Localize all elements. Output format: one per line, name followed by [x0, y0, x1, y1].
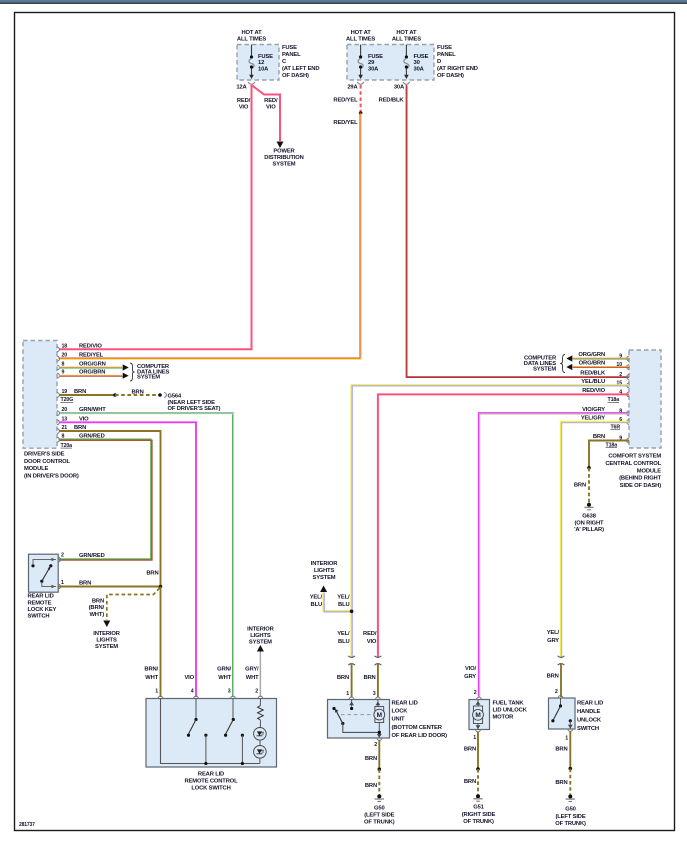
svg-text:POWER: POWER [273, 149, 295, 155]
svg-text:30A: 30A [394, 85, 405, 91]
lock unit internal wire to pin 2 [343, 724, 380, 733]
svg-text:BLU: BLU [311, 602, 322, 608]
svg-text:LOCK: LOCK [392, 709, 409, 715]
svg-text:LIGHTS: LIGHTS [250, 633, 271, 639]
arrow to interior lights system (middle) [320, 586, 327, 593]
svg-text:RED/YEL: RED/YEL [79, 353, 104, 359]
svg-text:(LEFT SIDE: (LEFT SIDE [555, 814, 585, 820]
svg-text:20: 20 [62, 407, 68, 413]
svg-text:2: 2 [474, 690, 477, 696]
svg-text:ORG/GRN: ORG/GRN [79, 362, 106, 368]
svg-text:1: 1 [565, 736, 568, 742]
wire RED/BLK from fuse 30 to comfort module pin 2 [406, 85, 629, 377]
terminal 29A connector [357, 82, 364, 84]
svg-text:3: 3 [373, 691, 376, 697]
wire RED/YEL from splice to driver door module pin 20 [59, 113, 361, 359]
svg-text:BRN: BRN [547, 674, 559, 680]
svg-text:30A: 30A [414, 66, 425, 72]
svg-text:ALL TIMES: ALL TIMES [346, 37, 375, 43]
svg-text:OF TRUNK): OF TRUNK) [364, 820, 395, 826]
lock unit pin 1 [349, 697, 354, 699]
svg-text:2: 2 [619, 372, 622, 378]
splice node BRN [113, 393, 117, 397]
svg-text:T20G: T20G [61, 397, 74, 403]
svg-text:WHT): WHT) [89, 612, 104, 618]
wire BRN/WHT from splice down to lock switch pin 1 [160, 587, 162, 698]
splice node YEL/BLU interior lights [350, 610, 354, 614]
svg-text:ALL TIMES: ALL TIMES [237, 37, 266, 43]
arrow ORG/GRN data line (left-pointing) [566, 355, 572, 361]
svg-text:12: 12 [258, 60, 264, 66]
terminal 12A connector [248, 82, 255, 84]
svg-text:10A: 10A [258, 66, 269, 72]
svg-text:BRN/: BRN/ [144, 667, 158, 673]
svg-text:VIO: VIO [367, 639, 377, 645]
svg-text:G638: G638 [582, 513, 597, 519]
junction node on rail (switch 1) [204, 762, 207, 765]
svg-text:HANDLE: HANDLE [577, 709, 601, 715]
svg-text:SWITCH: SWITCH [28, 614, 50, 620]
svg-text:G50: G50 [374, 805, 385, 811]
svg-text:GRY: GRY [547, 638, 559, 644]
pin 21 BRN of driver door module [57, 429, 59, 434]
wire GRN/RED from pin 8 to key switch pin 2 [58, 439, 151, 559]
inline connector YEL/BLU to BRN [348, 656, 355, 658]
svg-text:BLU: BLU [338, 602, 349, 608]
svg-text:WHT: WHT [218, 675, 231, 681]
svg-text:OF DRIVER'S SEAT): OF DRIVER'S SEAT) [168, 406, 221, 412]
fuse panel D box [347, 45, 434, 81]
svg-text:8: 8 [62, 362, 65, 368]
svg-text:BRN: BRN [593, 434, 605, 440]
wire ORG/BRN from comfort module to data lines [573, 366, 630, 368]
svg-text:G51: G51 [473, 804, 484, 810]
lock switch illumination resistor [259, 699, 261, 706]
arrow to interior lights system (left) [103, 621, 110, 628]
svg-text:ORG/BRN: ORG/BRN [79, 370, 105, 376]
wire BRN dashed to ground G638 [588, 468, 590, 503]
splice node BRN at key switch output [159, 585, 163, 589]
pin 15 YEL/BLU of comfort module [627, 383, 629, 388]
lock switch LED 1 [254, 728, 267, 741]
svg-text:REAR LID: REAR LID [577, 700, 603, 706]
pin 8 ORG/GRN of driver door module [57, 365, 59, 370]
wire BRN from key switch pin 1 to splice [59, 586, 161, 588]
svg-text:ALL TIMES: ALL TIMES [392, 37, 421, 43]
svg-text:REAR LID: REAR LID [392, 701, 418, 707]
wire ORG/GRN from comfort module to data lines [573, 358, 630, 360]
svg-text:1: 1 [346, 691, 349, 697]
svg-text:HOT AT: HOT AT [241, 30, 262, 36]
ground G638 [587, 503, 591, 507]
svg-text:RED/: RED/ [363, 631, 377, 637]
key switch blade [42, 567, 50, 581]
arrow ORG/BRN data line [123, 373, 129, 379]
lock switch switch 2 (pin 3) [232, 699, 234, 719]
wire BRN dashed to ground G51 [477, 769, 479, 794]
svg-text:SIDE OF DASH): SIDE OF DASH) [620, 483, 661, 489]
comfort system central control module box [629, 350, 661, 448]
wire VIO from pin 13 to lock switch pin 4 [59, 422, 196, 697]
svg-text:T20a: T20a [61, 443, 73, 449]
svg-text:PANEL: PANEL [437, 52, 456, 58]
svg-text:BRN: BRN [363, 675, 375, 681]
svg-text:SYSTEM: SYSTEM [137, 375, 160, 381]
svg-text:MODULE: MODULE [637, 468, 662, 474]
svg-text:HOT AT: HOT AT [351, 30, 372, 36]
svg-text:2: 2 [555, 689, 558, 695]
svg-text:BRN: BRN [92, 598, 104, 604]
svg-text:SYSTEM: SYSTEM [313, 575, 336, 581]
wire BRN from pin 19 to splice [59, 394, 115, 396]
pin 9 BRN of comfort module [627, 438, 629, 443]
svg-text:3: 3 [228, 689, 231, 695]
splice node below handle switch [569, 767, 573, 771]
rear lid remote control lock switch box [146, 699, 277, 768]
arrow to power distribution system [277, 142, 284, 149]
svg-text:MODULE: MODULE [24, 466, 49, 472]
svg-text:SYSTEM: SYSTEM [95, 644, 118, 650]
svg-text:VIO: VIO [266, 104, 276, 110]
lock switch internal rail from pin 1 [161, 699, 260, 764]
svg-text:RED/: RED/ [264, 98, 278, 104]
pin 8 GRN/RED of driver door module [57, 437, 59, 442]
pin 9 ORG/BRN of driver door module [57, 373, 59, 378]
wire YEL/BLU branch to interior lights [323, 592, 351, 611]
splice node below fuel motor [476, 767, 480, 771]
splice node below lock unit [378, 768, 382, 772]
rear lid lock unit box [328, 700, 390, 739]
pin 4 RED/VIO of comfort module [627, 392, 629, 397]
pin 20 GRN/WHT of driver door module [57, 411, 59, 416]
wire RED/VIO branch to power distribution [252, 85, 281, 141]
key switch internal contacts [33, 560, 56, 565]
svg-text:4: 4 [191, 689, 194, 695]
svg-text:DISTRIBUTION: DISTRIBUTION [264, 155, 303, 161]
ground G50 (left side of trunk, right) [568, 795, 572, 799]
svg-text:'A' PILLAR): 'A' PILLAR) [574, 527, 604, 533]
svg-text:LIGHTS: LIGHTS [96, 638, 117, 644]
svg-text:LID UNLOCK: LID UNLOCK [493, 707, 528, 713]
svg-text:RED/: RED/ [237, 98, 251, 104]
key switch pin 2 [58, 557, 60, 562]
fuel motor pin 2 [477, 697, 482, 699]
svg-text:OF DASH): OF DASH) [282, 73, 309, 79]
svg-text:BRN: BRN [365, 756, 377, 762]
splice node on RED/YEL [359, 111, 363, 115]
splice node BRN at A pillar [587, 466, 591, 470]
svg-text:REAR LID: REAR LID [198, 772, 224, 778]
pin 10 ORG/BRN of comfort module [627, 365, 629, 370]
svg-text:RED/YEL: RED/YEL [333, 120, 358, 126]
svg-text:VIO/GRY: VIO/GRY [582, 407, 605, 413]
pin 8 VIO/GRY of comfort module [627, 411, 629, 416]
svg-text:RED/VIO: RED/VIO [582, 388, 605, 394]
svg-text:VIO: VIO [184, 675, 194, 681]
wire BRN from handle switch pin 1 [569, 731, 571, 767]
wire BRN dashed to ground G564 [115, 394, 160, 396]
svg-text:20: 20 [62, 353, 68, 359]
svg-text:29: 29 [368, 60, 375, 66]
svg-text:(RIGHT SIDE: (RIGHT SIDE [462, 812, 496, 818]
fuel motor M symbol [473, 706, 482, 724]
lock switch pin 2 [258, 696, 263, 698]
rear lid handle unlock switch box [549, 698, 576, 729]
svg-text:T18a: T18a [608, 397, 620, 403]
wire BRN into lock unit pin 3 [377, 664, 379, 698]
wire RED/YEL dashed segment from fuse 29 [360, 85, 362, 112]
svg-text:1: 1 [61, 580, 64, 586]
svg-text:YEL/BLU: YEL/BLU [581, 379, 605, 385]
wire BRN into handle switch pin 2 [560, 664, 562, 698]
fuse 29 symbol [360, 45, 362, 57]
ground G51 (right side of trunk) [476, 794, 480, 798]
svg-text:SYSTEM: SYSTEM [249, 640, 272, 646]
lock unit motor M [375, 707, 384, 723]
driver side door control module box [23, 341, 57, 449]
fuel tank lid unlock motor box [469, 700, 490, 730]
wire RED/VIO from comfort module pin 4 [378, 394, 629, 657]
svg-text:DRIVER'S SIDE: DRIVER'S SIDE [24, 452, 65, 458]
svg-text:LOCK SWITCH: LOCK SWITCH [191, 786, 230, 792]
svg-text:RED/BLK: RED/BLK [580, 371, 606, 377]
svg-text:BRN: BRN [337, 675, 349, 681]
svg-text:G50: G50 [565, 806, 576, 812]
svg-text:T6R: T6R [610, 425, 620, 431]
svg-text:RED/VIO: RED/VIO [79, 343, 102, 349]
pin 6 YEL/GRY of comfort module [627, 420, 629, 425]
svg-text:(BRN/: (BRN/ [89, 605, 105, 611]
svg-text:2: 2 [374, 742, 377, 748]
svg-text:BRN: BRN [574, 483, 586, 489]
svg-text:(BOTTOM CENTER: (BOTTOM CENTER [392, 725, 443, 731]
wire ORG/BRN to computer data lines [59, 375, 122, 377]
wire BRN dashed to ground G50 (trunk left) [378, 769, 380, 794]
svg-text:GRY/: GRY/ [245, 667, 259, 673]
svg-text:WHT: WHT [246, 675, 259, 681]
inline connector YEL/GRY to BRN [558, 656, 565, 658]
svg-text:RED/BLK: RED/BLK [379, 98, 405, 104]
lock switch switch 1 (pin 4) [195, 699, 197, 719]
ground eyelet node G564 [158, 393, 162, 397]
svg-text:YEL/GRY: YEL/GRY [581, 416, 605, 422]
svg-text:INTERIOR: INTERIOR [247, 627, 274, 633]
svg-text:BRN: BRN [79, 580, 91, 586]
wire BRN into lock unit pin 1 [351, 664, 353, 698]
svg-text:LOCK KEY: LOCK KEY [28, 607, 57, 613]
svg-text:YEL/: YEL/ [337, 594, 350, 600]
svg-text:MOTOR: MOTOR [493, 714, 515, 720]
svg-text:9: 9 [62, 370, 65, 376]
top window bar [0, 0, 687, 3]
svg-text:1: 1 [155, 689, 158, 695]
svg-text:REAR LID: REAR LID [28, 594, 54, 600]
brace computer data lines right [560, 355, 565, 373]
wire BRN from fuel motor pin 1 [477, 732, 479, 768]
wire BRN from comfort module pin 9 to splice [589, 441, 629, 468]
svg-text:281737: 281737 [19, 822, 35, 828]
svg-text:GRN/: GRN/ [217, 667, 231, 673]
svg-text:RED/YEL: RED/YEL [333, 98, 358, 104]
wire BRN from lock unit pin 2 [378, 740, 380, 768]
wire ORG/GRN to computer data lines [59, 367, 122, 369]
svg-text:VIO: VIO [239, 104, 249, 110]
svg-text:BRN: BRN [555, 747, 567, 753]
svg-text:YEL/: YEL/ [337, 631, 350, 637]
arrow ORG/BRN data line (left-pointing) [566, 364, 572, 370]
fuel motor pin 1 [476, 730, 481, 732]
svg-text:(IN DRIVER'S DOOR): (IN DRIVER'S DOOR) [24, 473, 79, 479]
svg-text:M: M [475, 712, 480, 719]
svg-text:LIGHTS: LIGHTS [314, 568, 335, 574]
svg-text:GRY: GRY [464, 674, 476, 680]
svg-text:BRN: BRN [464, 747, 476, 753]
svg-text:OF TRUNK): OF TRUNK) [555, 821, 586, 827]
fuse 30 symbol [405, 45, 407, 57]
svg-text:PANEL: PANEL [282, 52, 301, 58]
svg-text:FUSE: FUSE [437, 45, 452, 51]
svg-text:BRN: BRN [132, 389, 144, 395]
svg-text:CENTRAL CONTROL: CENTRAL CONTROL [605, 461, 661, 467]
wire RED/VIO from fuse 12 to driver door module pin 18 [59, 85, 252, 349]
svg-text:SYSTEM: SYSTEM [533, 367, 556, 373]
svg-text:(BEHIND RIGHT: (BEHIND RIGHT [619, 476, 661, 482]
svg-text:G564: G564 [168, 394, 183, 400]
svg-text:1: 1 [473, 735, 476, 741]
inline connector RED/VIO to BRN [375, 656, 382, 658]
arrow to interior lights system (lock switch) [257, 645, 264, 652]
svg-text:29A: 29A [347, 85, 358, 91]
svg-text:M: M [377, 712, 382, 719]
wire YEL/BLU from comfort module pin 15 [351, 385, 628, 657]
wire VIO/GRY from comfort module pin 8 to fuel tank motor [479, 413, 629, 697]
pin 13 VIO of driver door module [57, 420, 59, 425]
terminal 30A connector [403, 82, 410, 84]
svg-text:COMFORT SYSTEM: COMFORT SYSTEM [608, 454, 661, 460]
wire YEL/GRY from comfort module pin 6 to handle switch [561, 422, 629, 658]
pin 19 BRN of driver door module [57, 393, 59, 398]
wire BRN from pin 21 to splice at key switch [59, 431, 161, 587]
lock unit pin 3 [376, 697, 381, 699]
svg-text:BRN: BRN [555, 780, 567, 786]
svg-text:D: D [437, 59, 441, 65]
arrow ORG/GRN data line [123, 364, 129, 370]
rear lid remote lock key switch box [29, 554, 59, 592]
wire GRN/WHT from pin 20 to lock switch pin 3 [59, 413, 233, 697]
svg-text:BRN: BRN [464, 779, 476, 785]
svg-text:(AT RIGHT END: (AT RIGHT END [437, 66, 478, 72]
pin 9 ORG/GRN of comfort module [627, 356, 629, 361]
svg-text:2: 2 [61, 553, 64, 559]
handle switch pin 2 [558, 696, 563, 698]
svg-text:ORG/GRN: ORG/GRN [578, 352, 605, 358]
svg-text:REMOTE: REMOTE [28, 600, 52, 606]
svg-text:(LEFT SIDE: (LEFT SIDE [364, 812, 394, 818]
svg-text:BRN: BRN [365, 783, 377, 789]
svg-text:UNIT: UNIT [392, 717, 406, 723]
svg-text:18: 18 [62, 343, 68, 349]
svg-text:12A: 12A [236, 85, 247, 91]
wire BRN dashed to ground G50 right [569, 769, 571, 795]
svg-text:30: 30 [414, 60, 420, 66]
svg-text:2: 2 [255, 689, 258, 695]
ground G50 (left side of trunk, center) [377, 794, 381, 798]
lock switch LED 2 [259, 740, 261, 745]
svg-text:GRN/WHT: GRN/WHT [79, 407, 106, 413]
svg-text:OF TRUNK): OF TRUNK) [463, 819, 494, 825]
brace computer data lines left [130, 363, 135, 381]
handle switch pin 1 [568, 729, 573, 731]
fuse panel C box [237, 45, 279, 81]
lock unit pin 2 [377, 738, 382, 740]
svg-text:INTERIOR: INTERIOR [311, 561, 338, 567]
svg-text:YEL/: YEL/ [547, 630, 560, 636]
svg-text:(NEAR LEFT SIDE: (NEAR LEFT SIDE [168, 400, 216, 406]
svg-text:BRN: BRN [146, 571, 158, 577]
svg-text:HOT AT: HOT AT [396, 30, 417, 36]
svg-text:30A: 30A [368, 66, 379, 72]
junction node on rail (switch 2) [241, 762, 244, 765]
fuse 12 symbol [251, 45, 253, 57]
svg-text:REMOTE CONTROL: REMOTE CONTROL [185, 779, 239, 785]
pin 18 RED/VIO of driver door module [57, 347, 59, 352]
svg-text:FUSE: FUSE [282, 45, 297, 51]
pin 20 RED/YEL of driver door module [57, 356, 59, 361]
svg-text:VIO/: VIO/ [465, 666, 477, 672]
wire BRN dashed branch to interior lights [107, 588, 160, 620]
svg-text:YEL/: YEL/ [310, 594, 323, 600]
lock unit switch blade [337, 712, 343, 724]
pin 2 RED/BLK of comfort module [627, 375, 629, 380]
svg-text:SYSTEM: SYSTEM [273, 162, 296, 168]
svg-text:WHT: WHT [145, 675, 158, 681]
svg-text:OF REAR LID DOOR): OF REAR LID DOOR) [392, 733, 448, 739]
junction node motor to pin 2 [378, 731, 381, 734]
svg-text:(ON RIGHT: (ON RIGHT [575, 520, 605, 526]
svg-text:BLU: BLU [338, 639, 349, 645]
svg-text:(AT LEFT END: (AT LEFT END [282, 66, 319, 72]
lock unit switch contacts [332, 707, 335, 710]
svg-text:DOOR CONTROL: DOOR CONTROL [24, 459, 70, 465]
handle switch internals [560, 698, 562, 705]
lock switch pin 4 [194, 696, 199, 698]
svg-text:T18a: T18a [606, 442, 618, 448]
lock unit mechanical linkage (dashed) [341, 714, 372, 716]
lock switch pin 1 [158, 696, 163, 698]
svg-text:GRN/RED: GRN/RED [79, 553, 105, 559]
svg-text:UNLOCK: UNLOCK [577, 717, 602, 723]
svg-text:FUEL TANK: FUEL TANK [493, 700, 525, 706]
svg-text:OF DASH): OF DASH) [437, 73, 464, 79]
svg-text:ORG/BRN: ORG/BRN [579, 361, 605, 367]
svg-text:INTERIOR: INTERIOR [93, 631, 120, 637]
wire GRY/WHT from lock switch pin 2 to interior lights [259, 651, 261, 697]
svg-text:SWITCH: SWITCH [577, 726, 599, 732]
key switch pin 1 [58, 584, 60, 589]
lock switch pin 3 [231, 696, 236, 698]
